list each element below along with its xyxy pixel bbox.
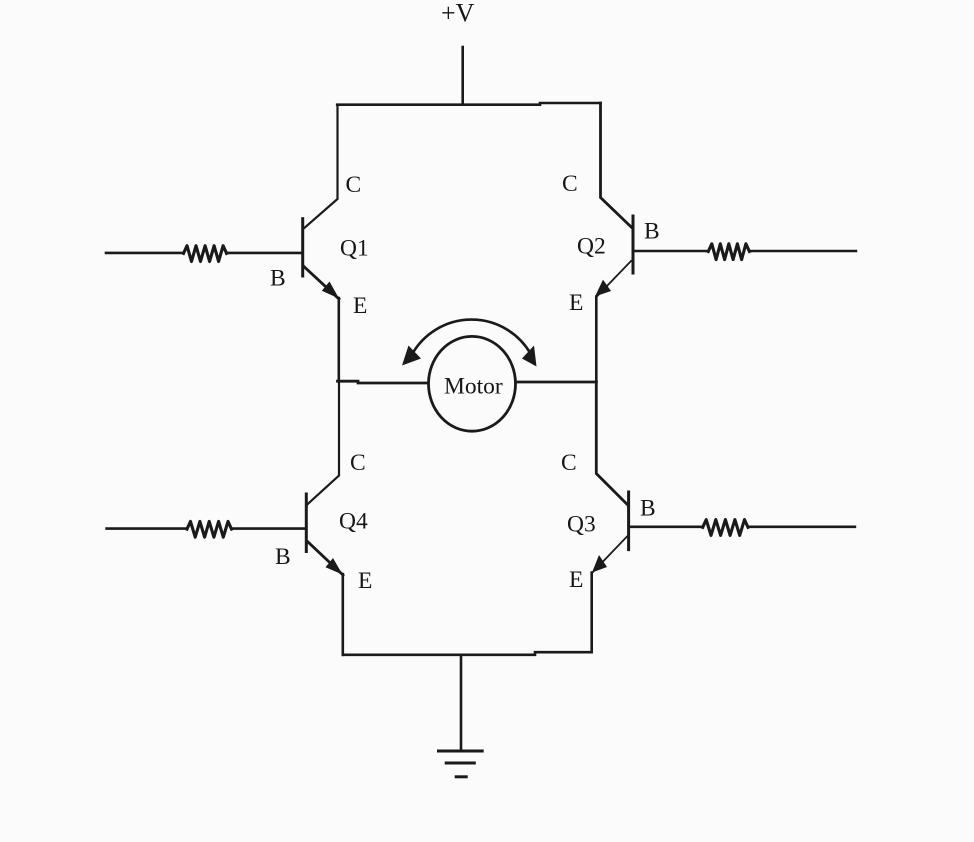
wire Q3 collector branch	[596, 382, 628, 505]
svg-text:B: B	[644, 219, 660, 245]
svg-text:E: E	[569, 290, 583, 316]
wire Q4 base lead (left input)	[107, 527, 305, 530]
svg-text:B: B	[640, 496, 656, 522]
transistor Q4 emitter arrowhead	[326, 558, 343, 575]
wire ground stub	[460, 655, 463, 751]
transistor Q3 base bar	[627, 492, 630, 550]
resistor R3 (Q3 base resistor)	[703, 520, 748, 536]
rotation arc left arrowhead	[402, 346, 421, 366]
wire Q3 emitter to bottom rail	[590, 573, 593, 653]
transistor Q1 emitter	[304, 267, 339, 300]
wire Q4 emitter to bottom rail	[341, 574, 344, 655]
svg-text:B: B	[270, 266, 286, 292]
wire Q4 collector branch	[308, 381, 339, 504]
wire Q1 base lead (left input)	[106, 252, 302, 255]
transistor Q3 emitter arrowhead	[592, 555, 607, 573]
transistor Q3 emitter	[592, 537, 627, 574]
rotation arc right arrowhead	[522, 346, 537, 367]
motor M1 body	[429, 336, 516, 431]
svg-text:C: C	[350, 450, 366, 476]
transistor Q4 base bar	[305, 494, 308, 552]
resistor R2 (Q2 base resistor)	[708, 244, 749, 260]
svg-text:E: E	[569, 567, 583, 593]
transistor Q2 emitter	[596, 261, 631, 297]
wire motor right lead	[516, 381, 597, 384]
ground symbol line 2	[446, 762, 474, 765]
transistor Q1 emitter arrowhead	[322, 282, 339, 299]
resistor R1 (Q1 base resistor)	[184, 246, 227, 262]
transistor Q4 emitter	[308, 542, 343, 575]
transistor Q2 emitter arrowhead	[595, 280, 611, 297]
svg-text:Q4: Q4	[339, 509, 368, 535]
ground symbol line 3	[456, 775, 466, 778]
wire Q2 base lead (right input)	[633, 250, 856, 253]
svg-text:C: C	[562, 171, 578, 197]
svg-text:E: E	[353, 293, 367, 319]
svg-text:B: B	[275, 544, 291, 570]
wire Q2 collector branch	[601, 103, 633, 228]
ground symbol line 1	[439, 750, 483, 753]
wire top rail (with jog)	[337, 103, 600, 105]
wire Q1 emitter to motor node	[337, 298, 340, 381]
svg-text:Q3: Q3	[567, 512, 596, 538]
wire Q1 collector branch	[304, 105, 338, 229]
svg-text:+V: +V	[441, 0, 475, 28]
wire bottom rail (with jog)	[343, 652, 590, 655]
svg-text:Q1: Q1	[340, 236, 369, 262]
wire Q2 emitter to motor node	[595, 297, 598, 382]
rotation direction arc	[413, 320, 531, 354]
resistor R4 (Q4 base resistor)	[187, 521, 232, 537]
transistor Q1 base bar	[301, 219, 304, 276]
wire +V stub	[461, 47, 464, 105]
svg-text:C: C	[346, 172, 362, 198]
wire motor left lead (with step)	[338, 381, 429, 383]
svg-text:Motor: Motor	[444, 374, 503, 400]
svg-text:E: E	[358, 568, 372, 594]
svg-text:Q2: Q2	[577, 234, 606, 260]
svg-text:C: C	[561, 450, 577, 476]
transistor Q2 base bar	[632, 216, 635, 273]
wire Q3 base lead (right input)	[629, 525, 855, 528]
